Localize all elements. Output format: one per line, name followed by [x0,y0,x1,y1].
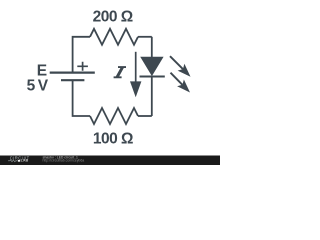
svg-text:200 Ω: 200 Ω [93,9,133,26]
wire bottom rail left + up to battery [73,80,90,116]
wire LED cathode down to bottom rail [151,77,153,117]
battery E (5 V) negative plate (short) [61,79,84,81]
watermark bar [0,156,220,166]
svg-text:http://circuitlab.com/ceyb6a: http://circuitlab.com/ceyb6a [43,159,85,163]
battery E (5 V) positive plate (long) [50,71,95,73]
label I (current) [114,66,126,78]
LED D1 cathode bar [140,75,165,77]
current arrow I head [130,81,141,97]
LED emission arrow 2 [171,73,191,93]
svg-text:5 V: 5 V [27,78,49,95]
LED emission arrow 1 [170,56,191,77]
resistor R1 200ohm zigzag [90,29,138,45]
wire right branch down to LED [151,37,153,58]
battery E polarity + sign [77,62,88,71]
CircuitLab logo: zigzag [8,160,17,162]
wire top rail right to corner [138,36,152,38]
wire top-left: battery + plate up to top rail [73,37,90,73]
resistor R2 100ohm zigzag [90,108,138,124]
CircuitLab logo: white square [18,160,20,162]
svg-text:100 Ω: 100 Ω [93,130,133,147]
LED D1 triangle [141,57,163,75]
current arrow I shaft [135,52,137,83]
wire bottom rail right segment [138,115,152,117]
svg-text:LAB: LAB [21,159,29,163]
